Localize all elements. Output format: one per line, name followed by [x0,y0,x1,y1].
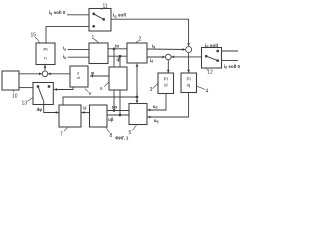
svg-text:6: 6 [100,86,103,91]
leader 13 [27,98,33,102]
wire node B to PI id [167,60,169,73]
leader 6 [104,82,109,87]
svg-text:4: 4 [206,89,209,95]
wire phi down to block 5 [136,97,138,103]
switch S13 contacts and lever [37,85,40,88]
leader 8 [106,127,110,132]
leader 5 [132,125,136,130]
summing node A (iq error) [186,47,192,53]
leader 3 [153,84,158,89]
wire phi from block 7 up [63,97,137,105]
wire iq to node A [147,48,185,51]
wire i-alpha block1 to block2 [108,48,127,50]
wire iq soll 0 input [67,14,89,16]
switch S11 (iq soll selector) [89,9,111,32]
svg-text:id soll 0: id soll 0 [224,64,240,70]
wire u-alpha block 5 to block 8 [107,110,129,112]
svg-text:uq: uq [154,118,159,124]
wire node A to PI iq [188,53,190,73]
block 2 Park transform [127,43,147,63]
junction u-beta tap [119,114,122,117]
wire u-alpha tap up to block 6 [113,90,115,111]
block 7 integrator [59,105,81,127]
svg-text:ib: ib [63,54,66,60]
block 4 current controller PI iq [181,73,197,93]
leader 9 [85,89,89,92]
svg-text:3: 3 [150,87,153,93]
wire phi estimate block 6 to block 9 [90,75,109,77]
wire iq soll from S11 to node A [111,19,189,46]
leader 11 [101,8,104,10]
leader 12 [206,68,209,70]
junction u-alpha tap [113,109,116,112]
svg-text:id soll: id soll [205,43,218,49]
wire d-phi from S13 to block 7 [44,101,59,113]
wire U from block 8 to block 7 [82,112,90,114]
wire u-beta tap up to block 6 [119,90,121,115]
svg-text:iq: iq [152,44,155,50]
leader 10 [13,91,14,93]
svg-text:5: 5 [129,130,132,136]
wire ud from PI id to block 5 [147,94,166,111]
wire id soll 0 line [222,60,239,62]
svg-text:id: id [164,83,168,88]
svg-text:8: 8 [110,133,113,139]
switch S12 contacts and lever [205,55,208,58]
wire node C to PI n [44,65,46,71]
svg-text:PI: PI [43,47,47,52]
wire S12 output to node B [171,56,201,58]
svg-text:PI: PI [186,76,190,81]
wire phi up to block 2 [136,64,138,97]
wire id to node B [147,56,165,58]
svg-text:13: 13 [22,101,28,107]
wire n feedback from block 9 to node C [48,73,70,75]
wire d-phi from block 9 to S13 [54,87,73,90]
switch S13 (d-phi selector) [33,83,53,105]
wire i-alpha tap down to block 6 [113,49,115,67]
wire i-beta block1 to block2 [108,55,127,57]
svg-text:PI: PI [164,76,168,81]
summing node C (speed error) [42,71,48,77]
leader 7 [64,127,68,131]
block 8 inverter [90,105,108,127]
svg-text:1: 1 [92,35,95,41]
svg-text:id: id [150,58,153,64]
leader 15 [35,37,40,42]
svg-text:2: 2 [139,37,142,43]
wire i-beta tap down to block 6 [119,56,121,67]
block 3 current controller PI id [158,73,174,94]
block 9 differentiator d/dt [70,66,88,87]
svg-text:12: 12 [207,69,213,75]
summing node B (id error) [166,54,172,60]
svg-text:ФИГ. 1: ФИГ. 1 [115,136,129,141]
svg-text:7: 7 [60,132,63,138]
wire PI n output to S11 [46,26,89,43]
svg-text:dφ: dφ [37,107,43,112]
svg-text:iβ: iβ [117,57,121,62]
switch S11 contacts and lever [92,13,95,16]
svg-text:9: 9 [89,91,92,96]
leader 4 [197,86,205,89]
block 1 Clarke transform [89,43,108,64]
svg-text:iα: iα [115,43,119,48]
wire ib input [68,56,89,58]
svg-text:U: U [83,106,86,111]
switch S12 (id soll selector) [202,48,222,69]
svg-text:ia: ia [63,46,66,52]
wire n soll to node C [19,73,42,75]
svg-text:10: 10 [12,94,18,100]
svg-text:n: n [44,56,47,61]
block 5 inverse Park transform [129,104,147,125]
block 6 rotor position estimator [109,67,127,90]
wire u-beta block 5 to block 8 [107,114,129,116]
junction i-alpha tap [113,47,116,50]
wire ia input [68,48,89,50]
leader 1 [94,39,99,43]
leader 2 [135,41,138,44]
junction phi node [136,96,139,99]
block 15 speed controller PI n [36,43,55,65]
block 10 setpoint generator [2,71,19,90]
svg-text:iq soll: iq soll [113,13,126,19]
svg-text:11: 11 [103,4,108,10]
svg-text:d: d [77,71,79,75]
svg-text:uα: uα [112,105,118,110]
svg-text:uβ: uβ [108,117,114,122]
wire id soll line [222,50,239,52]
wire d-phi-0 from block 10 to S13 [19,87,33,89]
wire uq from PI iq to block 5 [147,93,188,118]
junction i-beta tap [119,55,122,58]
svg-text:iq soll 0: iq soll 0 [49,10,66,16]
svg-text:ud: ud [153,104,158,110]
